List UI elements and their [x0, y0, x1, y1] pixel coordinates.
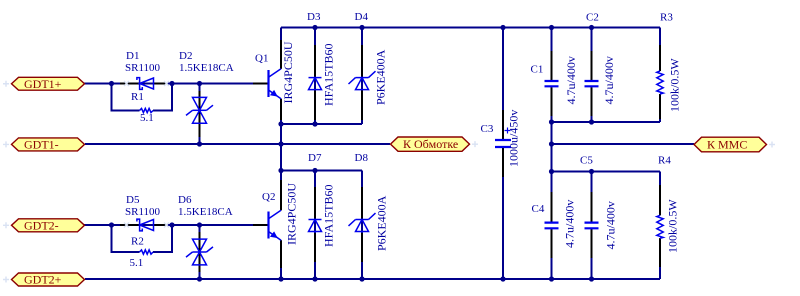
- svg-text:R1: R1: [131, 91, 144, 103]
- svg-text:D6: D6: [178, 194, 192, 206]
- svg-text:Q1: Q1: [255, 53, 268, 65]
- svg-text:5.1: 5.1: [130, 257, 144, 269]
- svg-text:D7: D7: [308, 152, 322, 164]
- svg-text:4.7u/400v: 4.7u/400v: [604, 201, 618, 249]
- svg-text:1.5KE18CA: 1.5KE18CA: [179, 62, 234, 74]
- svg-text:4.7u/400v: 4.7u/400v: [564, 56, 578, 104]
- svg-text:C4: C4: [532, 203, 545, 215]
- svg-text:1.5KE18CA: 1.5KE18CA: [178, 206, 233, 218]
- svg-text:D8: D8: [355, 152, 369, 164]
- svg-text:GDT1+: GDT1+: [24, 77, 62, 91]
- svg-text:GDT1-: GDT1-: [24, 138, 59, 152]
- svg-text:100k/0.5W: 100k/0.5W: [668, 58, 682, 112]
- svg-text:Q2: Q2: [262, 191, 275, 203]
- svg-text:1000u/450v: 1000u/450v: [507, 110, 521, 167]
- svg-text:C5: C5: [580, 155, 593, 167]
- svg-text:R3: R3: [660, 12, 673, 24]
- svg-text:5.1: 5.1: [140, 112, 154, 124]
- svg-text:4.7u/400v: 4.7u/400v: [563, 200, 577, 248]
- svg-text:К MMC: К MMC: [707, 137, 747, 151]
- svg-text:D4: D4: [355, 11, 369, 23]
- svg-text:P6KE400A: P6KE400A: [375, 195, 389, 251]
- svg-text:К Обмотке: К Обмотке: [403, 137, 458, 151]
- svg-text:C1: C1: [531, 64, 544, 76]
- svg-text:SR1100: SR1100: [125, 206, 161, 218]
- svg-text:GDT2-: GDT2-: [24, 218, 59, 232]
- svg-text:HFA15TB60: HFA15TB60: [322, 44, 336, 106]
- svg-text:SR1100: SR1100: [125, 62, 161, 74]
- svg-text:IRG4PC50U: IRG4PC50U: [285, 183, 299, 245]
- svg-text:C2: C2: [586, 12, 599, 24]
- svg-text:GDT2+: GDT2+: [24, 273, 62, 287]
- svg-text:C3: C3: [481, 123, 494, 135]
- svg-text:D5: D5: [126, 194, 140, 206]
- svg-text:D3: D3: [307, 11, 321, 23]
- svg-text:D2: D2: [179, 50, 192, 62]
- svg-text:D1: D1: [126, 50, 139, 62]
- svg-text:100k/0.5W: 100k/0.5W: [666, 199, 680, 253]
- svg-text:HFA15TB60: HFA15TB60: [322, 185, 336, 247]
- svg-text:4.7u/400v: 4.7u/400v: [602, 56, 616, 104]
- svg-text:P6KE400A: P6KE400A: [374, 49, 388, 105]
- svg-text:R4: R4: [658, 155, 671, 167]
- svg-text:IRG4PC50U: IRG4PC50U: [281, 41, 295, 103]
- svg-text:R2: R2: [131, 236, 144, 248]
